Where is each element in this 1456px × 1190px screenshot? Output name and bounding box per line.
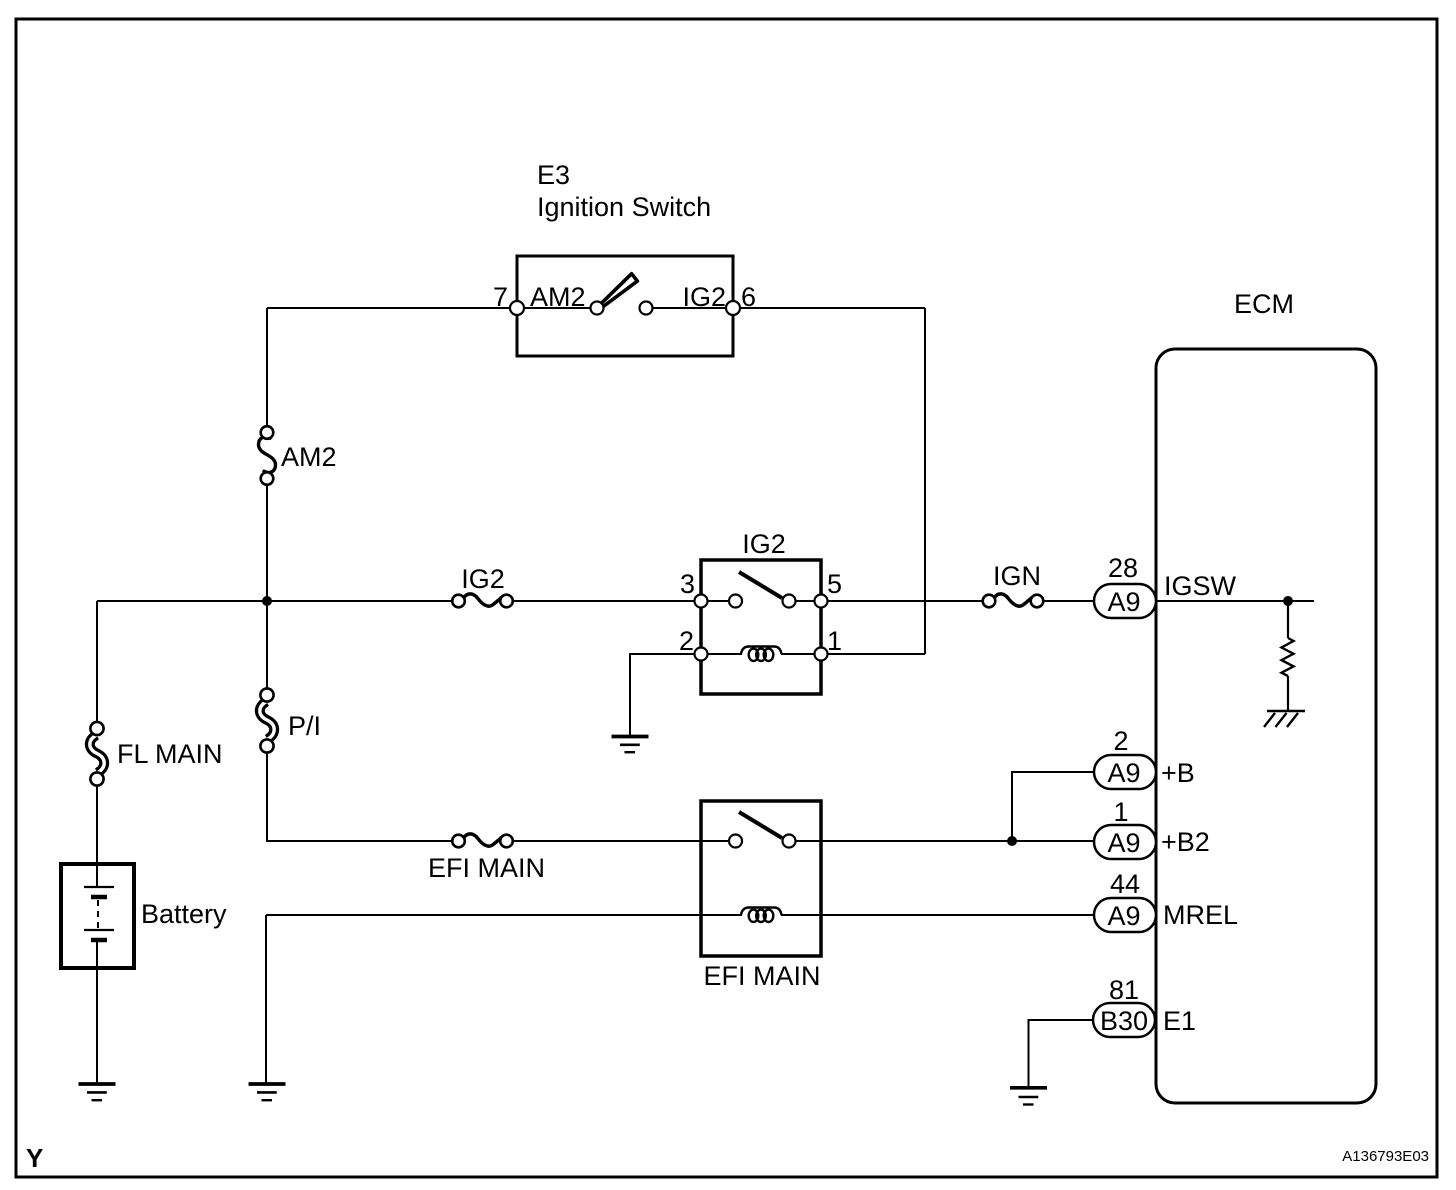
relay IG2 switch contacts	[707, 600, 730, 602]
fuse EFI MAIN	[428, 834, 545, 883]
ignition switch E3 box	[517, 256, 733, 356]
battery	[61, 864, 227, 968]
svg-text:A9: A9	[1107, 828, 1140, 858]
svg-text:3: 3	[680, 569, 695, 599]
connector A9 pin 28 IGSW	[1094, 553, 1237, 618]
wire: P/I branch x=267 down to EFI MAIN fuse row	[266, 601, 268, 689]
svg-text:1: 1	[827, 626, 842, 656]
svg-text:28: 28	[1108, 553, 1138, 583]
svg-text:6: 6	[741, 282, 756, 312]
connector B30 pin 81 E1	[1093, 975, 1196, 1037]
wire: switch contact to terminal 6	[646, 307, 733, 309]
fuse IGN	[983, 561, 1044, 607]
switch lever	[600, 274, 638, 308]
wire: terminal 7 to switch pivot	[517, 307, 597, 309]
chassis ground (resistor)	[1264, 711, 1305, 727]
svg-text:IG2: IG2	[742, 529, 786, 559]
wire: ignition switch row y=308 left	[267, 307, 517, 309]
svg-text:IGSW: IGSW	[1164, 571, 1237, 601]
svg-text:AM2: AM2	[281, 442, 337, 472]
fuse IG2	[452, 564, 513, 607]
svg-text:AM2: AM2	[530, 282, 586, 312]
svg-text:5: 5	[827, 569, 842, 599]
svg-text:2: 2	[1113, 726, 1128, 756]
svg-text:1: 1	[1113, 797, 1128, 827]
relay EFI MAIN switch wires	[701, 840, 730, 842]
connector A9 pin 1 +B2	[1094, 797, 1210, 859]
ground (MREL branch)	[249, 1084, 286, 1100]
svg-text:A9: A9	[1107, 758, 1140, 788]
svg-text:EFI MAIN: EFI MAIN	[428, 853, 545, 883]
switch contact circle	[640, 302, 653, 315]
svg-text:IG2: IG2	[461, 564, 505, 594]
wire: terminal 6 to right corner	[733, 307, 925, 309]
wire: battery to ground	[96, 967, 98, 1083]
wire: left vertical x=267 (AM2 branch)	[266, 308, 268, 427]
relay EFI MAIN blade	[739, 812, 782, 838]
wire: left vertical x=97 to FL MAIN and battery	[96, 601, 98, 723]
terminal 7	[510, 301, 524, 315]
wire: IG2 relay pin2 to ground	[630, 654, 701, 735]
relay IG2 coil	[707, 653, 742, 655]
relay EFI MAIN coil	[701, 914, 742, 916]
svg-text:+B: +B	[1161, 758, 1195, 788]
svg-text:Y: Y	[26, 1143, 43, 1173]
fuse AM2	[259, 426, 337, 485]
wire: MREL-left down to ground	[265, 915, 267, 1083]
fusible link P/I	[260, 688, 321, 752]
svg-text:MREL: MREL	[1163, 900, 1238, 930]
ground (IG2 relay coil)	[612, 737, 649, 753]
junction dot main wire	[262, 596, 272, 606]
svg-text:A9: A9	[1107, 901, 1140, 931]
wire: MREL row y=915	[266, 914, 742, 916]
svg-text:+B2: +B2	[1161, 827, 1210, 857]
ground (E1)	[1010, 1088, 1047, 1105]
relay IG2 pin circles	[695, 595, 708, 608]
switch pivot circle	[591, 302, 604, 315]
resistor (pull)	[1282, 601, 1294, 711]
svg-text:EFI MAIN: EFI MAIN	[703, 961, 820, 991]
relay IG2 blade	[739, 572, 782, 598]
svg-text:Battery: Battery	[141, 899, 227, 929]
svg-text:81: 81	[1109, 975, 1139, 1005]
junction dot +B2	[1007, 836, 1017, 846]
svg-text:IGN: IGN	[993, 561, 1041, 591]
svg-text:Ignition Switch: Ignition Switch	[537, 192, 711, 222]
wire: EFI fuse to relay and on to +B2 oval	[513, 840, 736, 842]
svg-text:ECM: ECM	[1234, 289, 1294, 319]
svg-text:FL MAIN: FL MAIN	[117, 739, 223, 769]
terminal 6	[726, 301, 740, 315]
svg-text:7: 7	[493, 282, 508, 312]
wire: vertical x=925 down to relay coil row	[924, 308, 926, 654]
svg-text:A9: A9	[1107, 587, 1140, 617]
wire: IGSW inside ECM	[1156, 600, 1314, 602]
wire: main horizontal y=601	[97, 600, 453, 602]
svg-text:P/I: P/I	[288, 711, 321, 741]
svg-text:A136793E03: A136793E03	[1342, 1148, 1429, 1165]
svg-text:E3: E3	[537, 160, 570, 190]
ground (battery)	[79, 1084, 116, 1100]
connector A9 pin 2 +B	[1094, 726, 1195, 789]
svg-text:B30: B30	[1100, 1006, 1148, 1036]
svg-text:2: 2	[679, 626, 694, 656]
wire: E1 row	[1029, 1020, 1094, 1087]
relay IG2	[679, 529, 842, 694]
wire: from x=925 to IG2 relay pin 1	[821, 653, 925, 655]
svg-text:IG2: IG2	[682, 282, 726, 312]
ECM box	[1156, 349, 1376, 1103]
junction dot IGSW	[1283, 596, 1293, 606]
wire: +B branch vertical x=1012	[1012, 772, 1094, 842]
fusible link FL MAIN	[90, 722, 223, 786]
svg-text:E1: E1	[1163, 1006, 1196, 1036]
connector A9 pin 44 MREL	[1094, 869, 1238, 932]
svg-text:44: 44	[1110, 869, 1140, 899]
relay EFI MAIN	[701, 801, 821, 991]
